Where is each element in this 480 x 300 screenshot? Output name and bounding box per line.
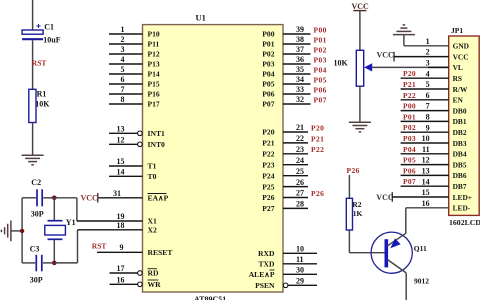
svg-text:P06: P06 — [403, 166, 416, 175]
svg-text:3: 3 — [121, 45, 125, 54]
svg-text:23: 23 — [296, 145, 304, 154]
wire left rail C2-C3 — [21, 198, 23, 263]
svg-text:37: 37 — [296, 45, 304, 54]
svg-text:P00: P00 — [262, 30, 274, 39]
crystal Y1 — [45, 221, 66, 240]
wire collector down — [405, 273, 407, 300]
potentiometer wiper arrow — [364, 63, 372, 71]
svg-text:25: 25 — [296, 167, 304, 176]
svg-text:P05: P05 — [314, 75, 327, 84]
svg-text:RXD: RXD — [258, 249, 275, 258]
pin 11 TXD — [258, 255, 317, 269]
svg-text:WR: WR — [148, 280, 162, 289]
pin 3 P12 — [109, 45, 160, 59]
svg-text:X2: X2 — [148, 226, 157, 235]
svg-text:LED-: LED- — [453, 204, 471, 213]
wire VCC to potentiometer — [359, 11, 361, 51]
pin 35 P04 net P04 — [262, 65, 327, 79]
svg-text:P22: P22 — [262, 150, 274, 159]
pin 5 P14 — [109, 65, 160, 79]
svg-text:P11: P11 — [148, 40, 160, 49]
svg-text:14: 14 — [422, 177, 430, 186]
svg-text:DB7: DB7 — [453, 182, 467, 191]
svg-text:P02: P02 — [262, 50, 274, 59]
pin 38 P01 net P01 — [262, 35, 327, 49]
svg-text:P22: P22 — [403, 91, 416, 100]
wire VCC rail to C1 — [32, 0, 34, 30]
svg-text:P06: P06 — [314, 85, 327, 94]
connector pin 2 VCC — [377, 48, 469, 62]
svg-text:LED+: LED+ — [453, 193, 472, 202]
svg-text:5: 5 — [121, 65, 125, 74]
svg-text:C3: C3 — [30, 244, 40, 253]
svg-text:DB4: DB4 — [453, 150, 467, 159]
svg-text:5: 5 — [426, 80, 430, 89]
connector pin 12 DB5 — [401, 156, 467, 170]
svg-text:29: 29 — [296, 277, 304, 286]
svg-text:9012: 9012 — [414, 277, 429, 286]
resistor R1 — [29, 89, 36, 122]
capacitor C3 — [22, 255, 52, 271]
pin 31 EA/VP — [99, 189, 169, 203]
connector pin 15 LED+ — [376, 188, 472, 202]
svg-text:P07: P07 — [314, 95, 327, 104]
ground above LCD pin1 — [393, 25, 415, 35]
svg-text:17: 17 — [117, 264, 125, 273]
svg-text:6: 6 — [121, 75, 125, 84]
capacitor C1 — [22, 24, 43, 39]
svg-text:33: 33 — [296, 85, 304, 94]
wire potentiometer to ground — [359, 86, 361, 122]
svg-text:P07: P07 — [403, 177, 416, 186]
pin 13 INT1 — [109, 125, 165, 139]
svg-text:P13: P13 — [148, 60, 160, 69]
pin 30 ALE&#8743;P — [249, 266, 317, 280]
pin 1 P10 — [109, 25, 160, 39]
svg-text:1602LCD: 1602LCD — [449, 218, 480, 227]
junction dot on rail — [20, 229, 24, 233]
svg-text:8: 8 — [121, 95, 125, 104]
svg-text:P20: P20 — [403, 69, 416, 78]
svg-text:P20: P20 — [311, 123, 324, 132]
pin 33 P06 net P06 — [262, 85, 327, 99]
svg-text:15: 15 — [422, 188, 430, 197]
capacitor C2 — [22, 189, 52, 206]
svg-text:16: 16 — [422, 199, 430, 208]
pin 6 P15 — [109, 75, 160, 89]
pin 2 P11 — [109, 35, 160, 49]
svg-text:30P: 30P — [31, 210, 44, 219]
ground left of crystal — [1, 221, 11, 242]
ground below potentiometer — [349, 122, 371, 132]
pin 39 P00 net P00 — [262, 25, 327, 39]
svg-text:10: 10 — [422, 134, 430, 143]
svg-text:38: 38 — [296, 35, 304, 44]
connector pin 13 DB6 — [401, 166, 467, 180]
svg-text:26: 26 — [296, 178, 304, 187]
svg-text:P03: P03 — [403, 134, 416, 143]
svg-text:R/W: R/W — [453, 85, 468, 94]
svg-text:P21: P21 — [403, 80, 416, 89]
svg-text:21: 21 — [296, 123, 304, 132]
svg-text:1: 1 — [426, 37, 430, 46]
svg-text:EA∧P: EA∧P — [148, 194, 169, 203]
svg-text:35: 35 — [296, 65, 304, 74]
connector pin 3 VL — [426, 59, 463, 73]
svg-text:4: 4 — [121, 55, 125, 64]
pin 15 T1 — [109, 157, 157, 171]
svg-text:P12: P12 — [148, 50, 160, 59]
wire dot down to crystal — [53, 198, 55, 221]
wire emitter to LED- pin — [406, 208, 449, 234]
svg-text:2: 2 — [426, 48, 430, 57]
svg-text:22: 22 — [296, 134, 304, 143]
svg-text:7: 7 — [426, 102, 430, 111]
svg-text:3: 3 — [426, 59, 430, 68]
svg-text:P02: P02 — [314, 45, 327, 54]
svg-text:VCC: VCC — [376, 193, 394, 202]
pin 26 P25 — [262, 178, 308, 192]
svg-text:RST: RST — [32, 59, 47, 68]
pin 10 RXD — [258, 245, 317, 259]
pin 18 X2 — [78, 221, 157, 235]
svg-text:R1: R1 — [37, 90, 47, 99]
svg-text:P04: P04 — [262, 70, 274, 79]
svg-text:VCC: VCC — [377, 51, 395, 60]
connector pin 11 DB4 — [401, 145, 467, 159]
svg-text:10K: 10K — [334, 58, 349, 67]
svg-text:T0: T0 — [148, 172, 157, 181]
node X1 junction dot — [52, 196, 57, 201]
svg-text:ALE∧P: ALE∧P — [249, 270, 275, 279]
svg-text:P02: P02 — [403, 123, 416, 132]
svg-text:32: 32 — [296, 95, 304, 104]
svg-text:34: 34 — [296, 75, 304, 84]
wire P26 to R2 — [348, 175, 350, 198]
pin 19 X1 — [77, 212, 157, 226]
wire dot to X2 jog — [54, 230, 77, 263]
connector pin 6 EN — [401, 91, 464, 105]
pin 8 P17 — [109, 95, 160, 109]
connector pin 8 DB1 — [401, 112, 467, 126]
connector pin 16 LED- — [422, 199, 471, 213]
pin 27 P26 net P26 — [262, 189, 324, 203]
svg-text:P25: P25 — [262, 182, 274, 191]
svg-text:P23: P23 — [262, 160, 274, 169]
svg-text:P20: P20 — [262, 128, 274, 137]
pin 7 P16 — [109, 85, 160, 99]
connector pin 5 R/W — [401, 80, 468, 94]
svg-text:10uF: 10uF — [43, 35, 60, 44]
svg-text:30P: 30P — [30, 276, 43, 285]
svg-text:19: 19 — [117, 212, 125, 221]
svg-text:P03: P03 — [314, 55, 327, 64]
wire wiper to LCD VL pin 3 — [372, 66, 449, 68]
wire crystal to X2 node — [53, 239, 55, 263]
pin 23 P22 net P22 — [262, 145, 324, 159]
svg-text:T1: T1 — [148, 162, 157, 171]
svg-text:AT89C51: AT89C51 — [194, 295, 226, 300]
svg-text:39: 39 — [296, 25, 304, 34]
svg-text:P00: P00 — [314, 25, 327, 34]
svg-text:DB6: DB6 — [453, 171, 467, 180]
svg-text:28: 28 — [296, 200, 304, 209]
connector pin 14 DB7 — [401, 177, 467, 191]
svg-text:P24: P24 — [262, 171, 274, 180]
connector pin 1 GND — [426, 37, 469, 51]
svg-text:P15: P15 — [148, 80, 160, 89]
pin 4 P13 — [109, 55, 160, 68]
pin 12 INT0 — [109, 136, 165, 150]
svg-text:P06: P06 — [262, 90, 274, 99]
svg-text:P07: P07 — [262, 100, 274, 109]
transistor Q11 9012 — [371, 232, 412, 273]
svg-text:18: 18 — [117, 221, 125, 230]
svg-text:6: 6 — [426, 91, 430, 100]
pin 9 RESET — [97, 243, 172, 257]
connector pin 4 RS — [401, 69, 462, 83]
svg-text:12: 12 — [117, 136, 125, 145]
connector pin 9 DB2 — [401, 123, 467, 137]
potentiometer RP 10K — [356, 50, 363, 86]
svg-text:30: 30 — [296, 266, 304, 275]
svg-text:PSEN: PSEN — [255, 281, 275, 290]
svg-text:16: 16 — [117, 276, 125, 285]
svg-text:JP1: JP1 — [451, 26, 463, 35]
svg-text:27: 27 — [296, 189, 304, 198]
svg-text:P03: P03 — [262, 60, 274, 69]
svg-text:P22: P22 — [311, 145, 324, 154]
wire R2 to base — [349, 230, 384, 253]
svg-text:TXD: TXD — [258, 260, 275, 269]
svg-text:C2: C2 — [31, 178, 41, 187]
pin 28 P27 — [262, 200, 308, 214]
svg-text:11: 11 — [296, 255, 304, 264]
svg-text:9: 9 — [426, 123, 430, 132]
svg-text:P01: P01 — [403, 112, 416, 121]
svg-text:P16: P16 — [148, 90, 160, 99]
pin 25 P24 — [262, 167, 308, 181]
svg-text:INT1: INT1 — [148, 129, 166, 138]
svg-text:X1: X1 — [148, 217, 157, 226]
IC U1 body — [143, 25, 284, 292]
svg-text:GND: GND — [453, 42, 469, 51]
connector pin 10 DB3 — [401, 134, 467, 148]
svg-text:DB1: DB1 — [453, 117, 467, 126]
svg-text:P26: P26 — [262, 193, 274, 202]
ground below R1 — [22, 155, 44, 165]
svg-text:C1: C1 — [44, 23, 54, 32]
connector pin 7 DB0 — [401, 102, 467, 116]
svg-text:Y1: Y1 — [66, 218, 76, 227]
svg-text:24: 24 — [296, 156, 304, 165]
wire dot to X1 jog — [54, 198, 77, 221]
pin 22 P21 net P21 — [262, 134, 324, 148]
svg-text:1: 1 — [121, 25, 125, 34]
svg-text:14: 14 — [117, 168, 125, 177]
wire ground to LCD pin 1 — [404, 35, 449, 46]
wire ground stem to rail — [11, 230, 22, 232]
pin 34 P05 net P05 — [262, 75, 327, 89]
svg-text:R2: R2 — [352, 200, 361, 209]
power label VCC at EA pin — [81, 193, 99, 203]
svg-text:11: 11 — [422, 145, 430, 154]
svg-text:10K: 10K — [35, 99, 50, 108]
svg-text:P21: P21 — [311, 134, 324, 143]
svg-text:RD: RD — [148, 269, 159, 278]
svg-text:VL: VL — [453, 63, 463, 72]
svg-text:P01: P01 — [262, 40, 274, 49]
svg-text:4: 4 — [426, 69, 430, 78]
svg-text:2: 2 — [121, 35, 125, 44]
svg-text:RST: RST — [92, 242, 107, 251]
pin 14 T0 — [109, 168, 157, 182]
svg-text:7: 7 — [121, 85, 125, 94]
svg-text:DB0: DB0 — [453, 106, 467, 115]
svg-text:P26: P26 — [347, 166, 360, 175]
svg-text:DB2: DB2 — [453, 128, 467, 137]
svg-text:P01: P01 — [314, 35, 327, 44]
svg-text:P10: P10 — [148, 30, 160, 39]
pin 29 PSEN — [255, 277, 317, 291]
pin 37 P02 net P02 — [262, 45, 327, 59]
node X2 junction dot — [52, 261, 57, 266]
svg-text:VCC: VCC — [352, 2, 370, 11]
svg-text:VCC: VCC — [81, 194, 99, 203]
svg-text:P17: P17 — [148, 100, 160, 109]
pin 24 P23 — [262, 156, 308, 170]
wire R1 to ground — [32, 123, 34, 156]
svg-text:13: 13 — [422, 167, 430, 176]
svg-text:P26: P26 — [311, 189, 324, 198]
svg-text:INT0: INT0 — [148, 140, 166, 149]
pin 17 RD — [110, 264, 159, 278]
pin 21 P20 net P20 — [262, 123, 324, 137]
pin 32 P07 net P07 — [262, 95, 327, 109]
resistor R2 — [346, 198, 352, 230]
svg-text:10: 10 — [296, 245, 304, 254]
svg-text:8: 8 — [426, 113, 430, 122]
svg-text:31: 31 — [113, 189, 121, 198]
svg-text:P27: P27 — [262, 204, 274, 213]
svg-text:U1: U1 — [196, 12, 206, 22]
pin 36 P03 net P03 — [262, 55, 327, 68]
power VCC above potentiometer — [352, 2, 370, 11]
svg-text:P00: P00 — [403, 102, 416, 111]
svg-text:P04: P04 — [314, 65, 327, 74]
svg-text:RESET: RESET — [148, 248, 173, 257]
svg-text:RS: RS — [453, 74, 462, 83]
svg-text:13: 13 — [117, 125, 125, 134]
svg-text:DB3: DB3 — [453, 139, 467, 148]
svg-text:P05: P05 — [403, 156, 416, 165]
svg-text:15: 15 — [117, 157, 125, 166]
svg-text:1K: 1K — [353, 209, 363, 218]
wire C1 to R1 — [32, 40, 34, 89]
svg-text:P21: P21 — [262, 139, 274, 148]
connector JP1 body — [449, 36, 480, 215]
svg-text:DB5: DB5 — [453, 160, 467, 169]
pin 16 WR — [110, 276, 162, 290]
svg-text:P04: P04 — [403, 145, 416, 154]
svg-text:P14: P14 — [148, 70, 160, 79]
svg-text:EN: EN — [453, 96, 464, 105]
svg-text:Q11: Q11 — [414, 244, 427, 253]
svg-text:VCC: VCC — [453, 52, 469, 61]
svg-text:36: 36 — [296, 55, 304, 64]
svg-text:9: 9 — [120, 243, 124, 252]
svg-text:12: 12 — [422, 156, 430, 165]
svg-text:P05: P05 — [262, 80, 274, 89]
